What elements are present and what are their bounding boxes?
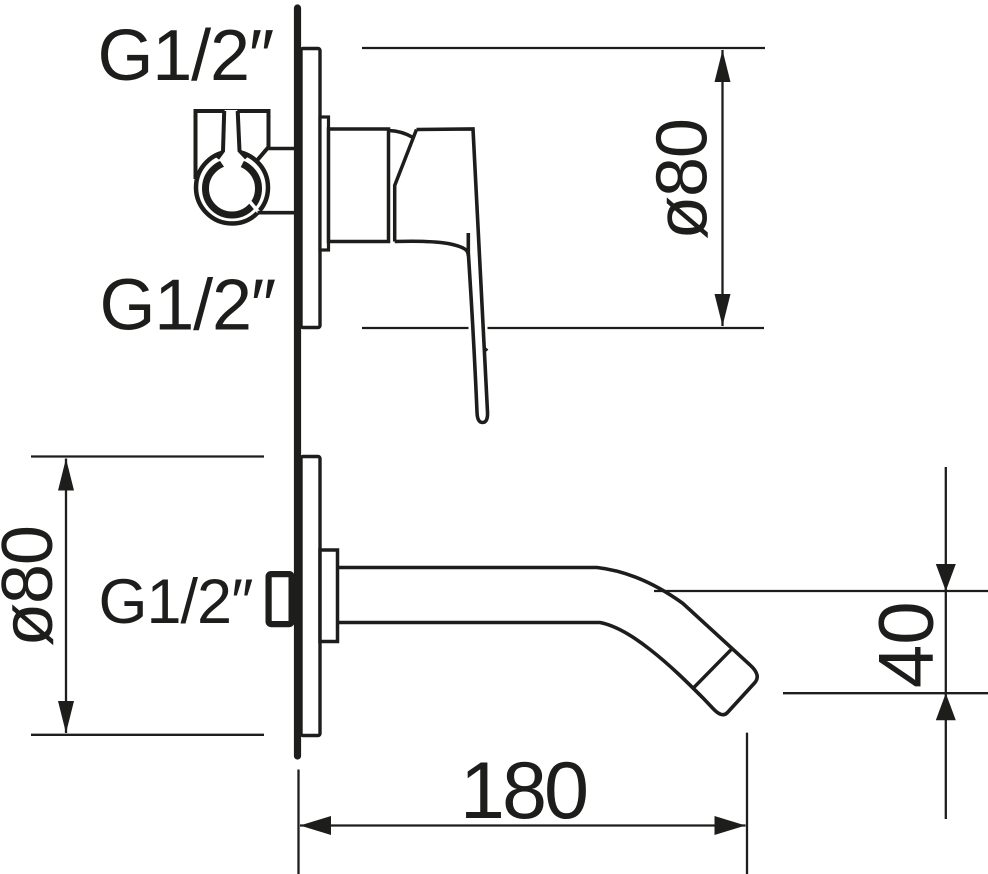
G1/2 wall fitting — [269, 574, 292, 624]
dim left ø80 line — [65, 459, 67, 734]
dim right ø80 line — [721, 50, 723, 326]
dim right ø80 extension bottom left part — [362, 327, 469, 329]
supply stub top wire — [269, 147, 296, 151]
svg-text:ø80: ø80 — [0, 526, 68, 646]
dim 40 line — [945, 467, 947, 819]
valve inner ring — [206, 162, 259, 215]
dim right ø80 extension bottom right part — [488, 327, 765, 329]
dim 40 arrow down — [936, 564, 956, 591]
aerator line — [693, 648, 733, 689]
svg-text:180: 180 — [460, 746, 586, 836]
lever joint tick — [485, 348, 488, 351]
dim 40 extension bottom — [783, 692, 988, 694]
svg-text:G1/2″: G1/2″ — [100, 266, 276, 346]
dim right ø80 arrow up — [715, 50, 731, 82]
valve square (concealed body) — [196, 111, 269, 179]
valve stem slot — [218, 110, 247, 168]
dim 40 arrow up — [936, 693, 956, 720]
supply stub bottom wire — [258, 211, 296, 215]
spout escutcheon flange — [301, 457, 320, 736]
mixer body — [329, 129, 389, 242]
wall — [294, 8, 301, 756]
handle dome left edge — [395, 130, 417, 242]
dim 180 extension right — [746, 733, 748, 874]
mixer step ring — [320, 117, 329, 250]
svg-text:G1/2″: G1/2″ — [99, 567, 254, 637]
dim 180 arrow right — [715, 816, 746, 835]
dim 180 arrow left — [300, 816, 331, 835]
dim left ø80 extension top — [31, 455, 264, 457]
dim right ø80 arrow down — [715, 294, 731, 326]
handle dome arc — [389, 131, 413, 138]
dim 40 extension top — [654, 590, 988, 592]
dim left ø80 arrow up — [58, 459, 74, 491]
svg-text:G1/2″: G1/2″ — [98, 16, 274, 96]
dim 180 line — [300, 824, 746, 826]
dim left ø80 extension bottom — [31, 734, 264, 736]
dim left ø80 arrow down — [58, 701, 74, 733]
dim right ø80 extension top — [362, 47, 765, 49]
spout tube — [338, 568, 758, 715]
mixer escutcheon flange — [301, 49, 320, 328]
handle dome bottom curve — [395, 241, 469, 256]
lever — [417, 129, 488, 423]
valve ring gap slash — [249, 200, 259, 212]
svg-text:ø80: ø80 — [643, 119, 723, 239]
dim 180 extension left — [297, 770, 299, 874]
spout step ring — [320, 550, 338, 642]
svg-text:40: 40 — [862, 601, 950, 688]
valve outer circle — [196, 152, 268, 224]
